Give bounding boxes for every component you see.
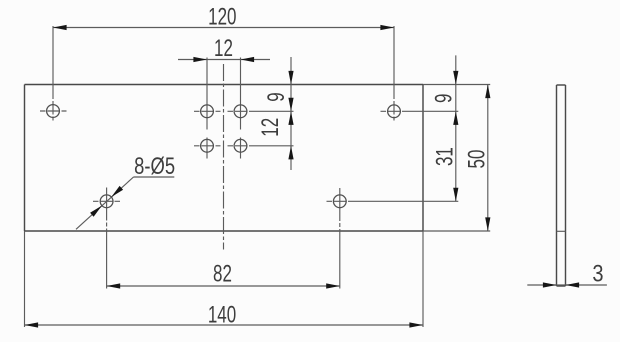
svg-text:140: 140: [208, 302, 236, 328]
svg-text:12: 12: [257, 118, 283, 137]
svg-text:31: 31: [432, 147, 458, 166]
svg-text:82: 82: [213, 261, 232, 287]
svg-text:12: 12: [214, 36, 233, 62]
svg-text:9: 9: [431, 94, 457, 103]
svg-text:8-Ø5: 8-Ø5: [134, 154, 175, 180]
svg-text:50: 50: [464, 150, 490, 169]
svg-text:9: 9: [263, 92, 289, 101]
svg-text:3: 3: [592, 260, 603, 287]
svg-text:120: 120: [208, 4, 236, 30]
